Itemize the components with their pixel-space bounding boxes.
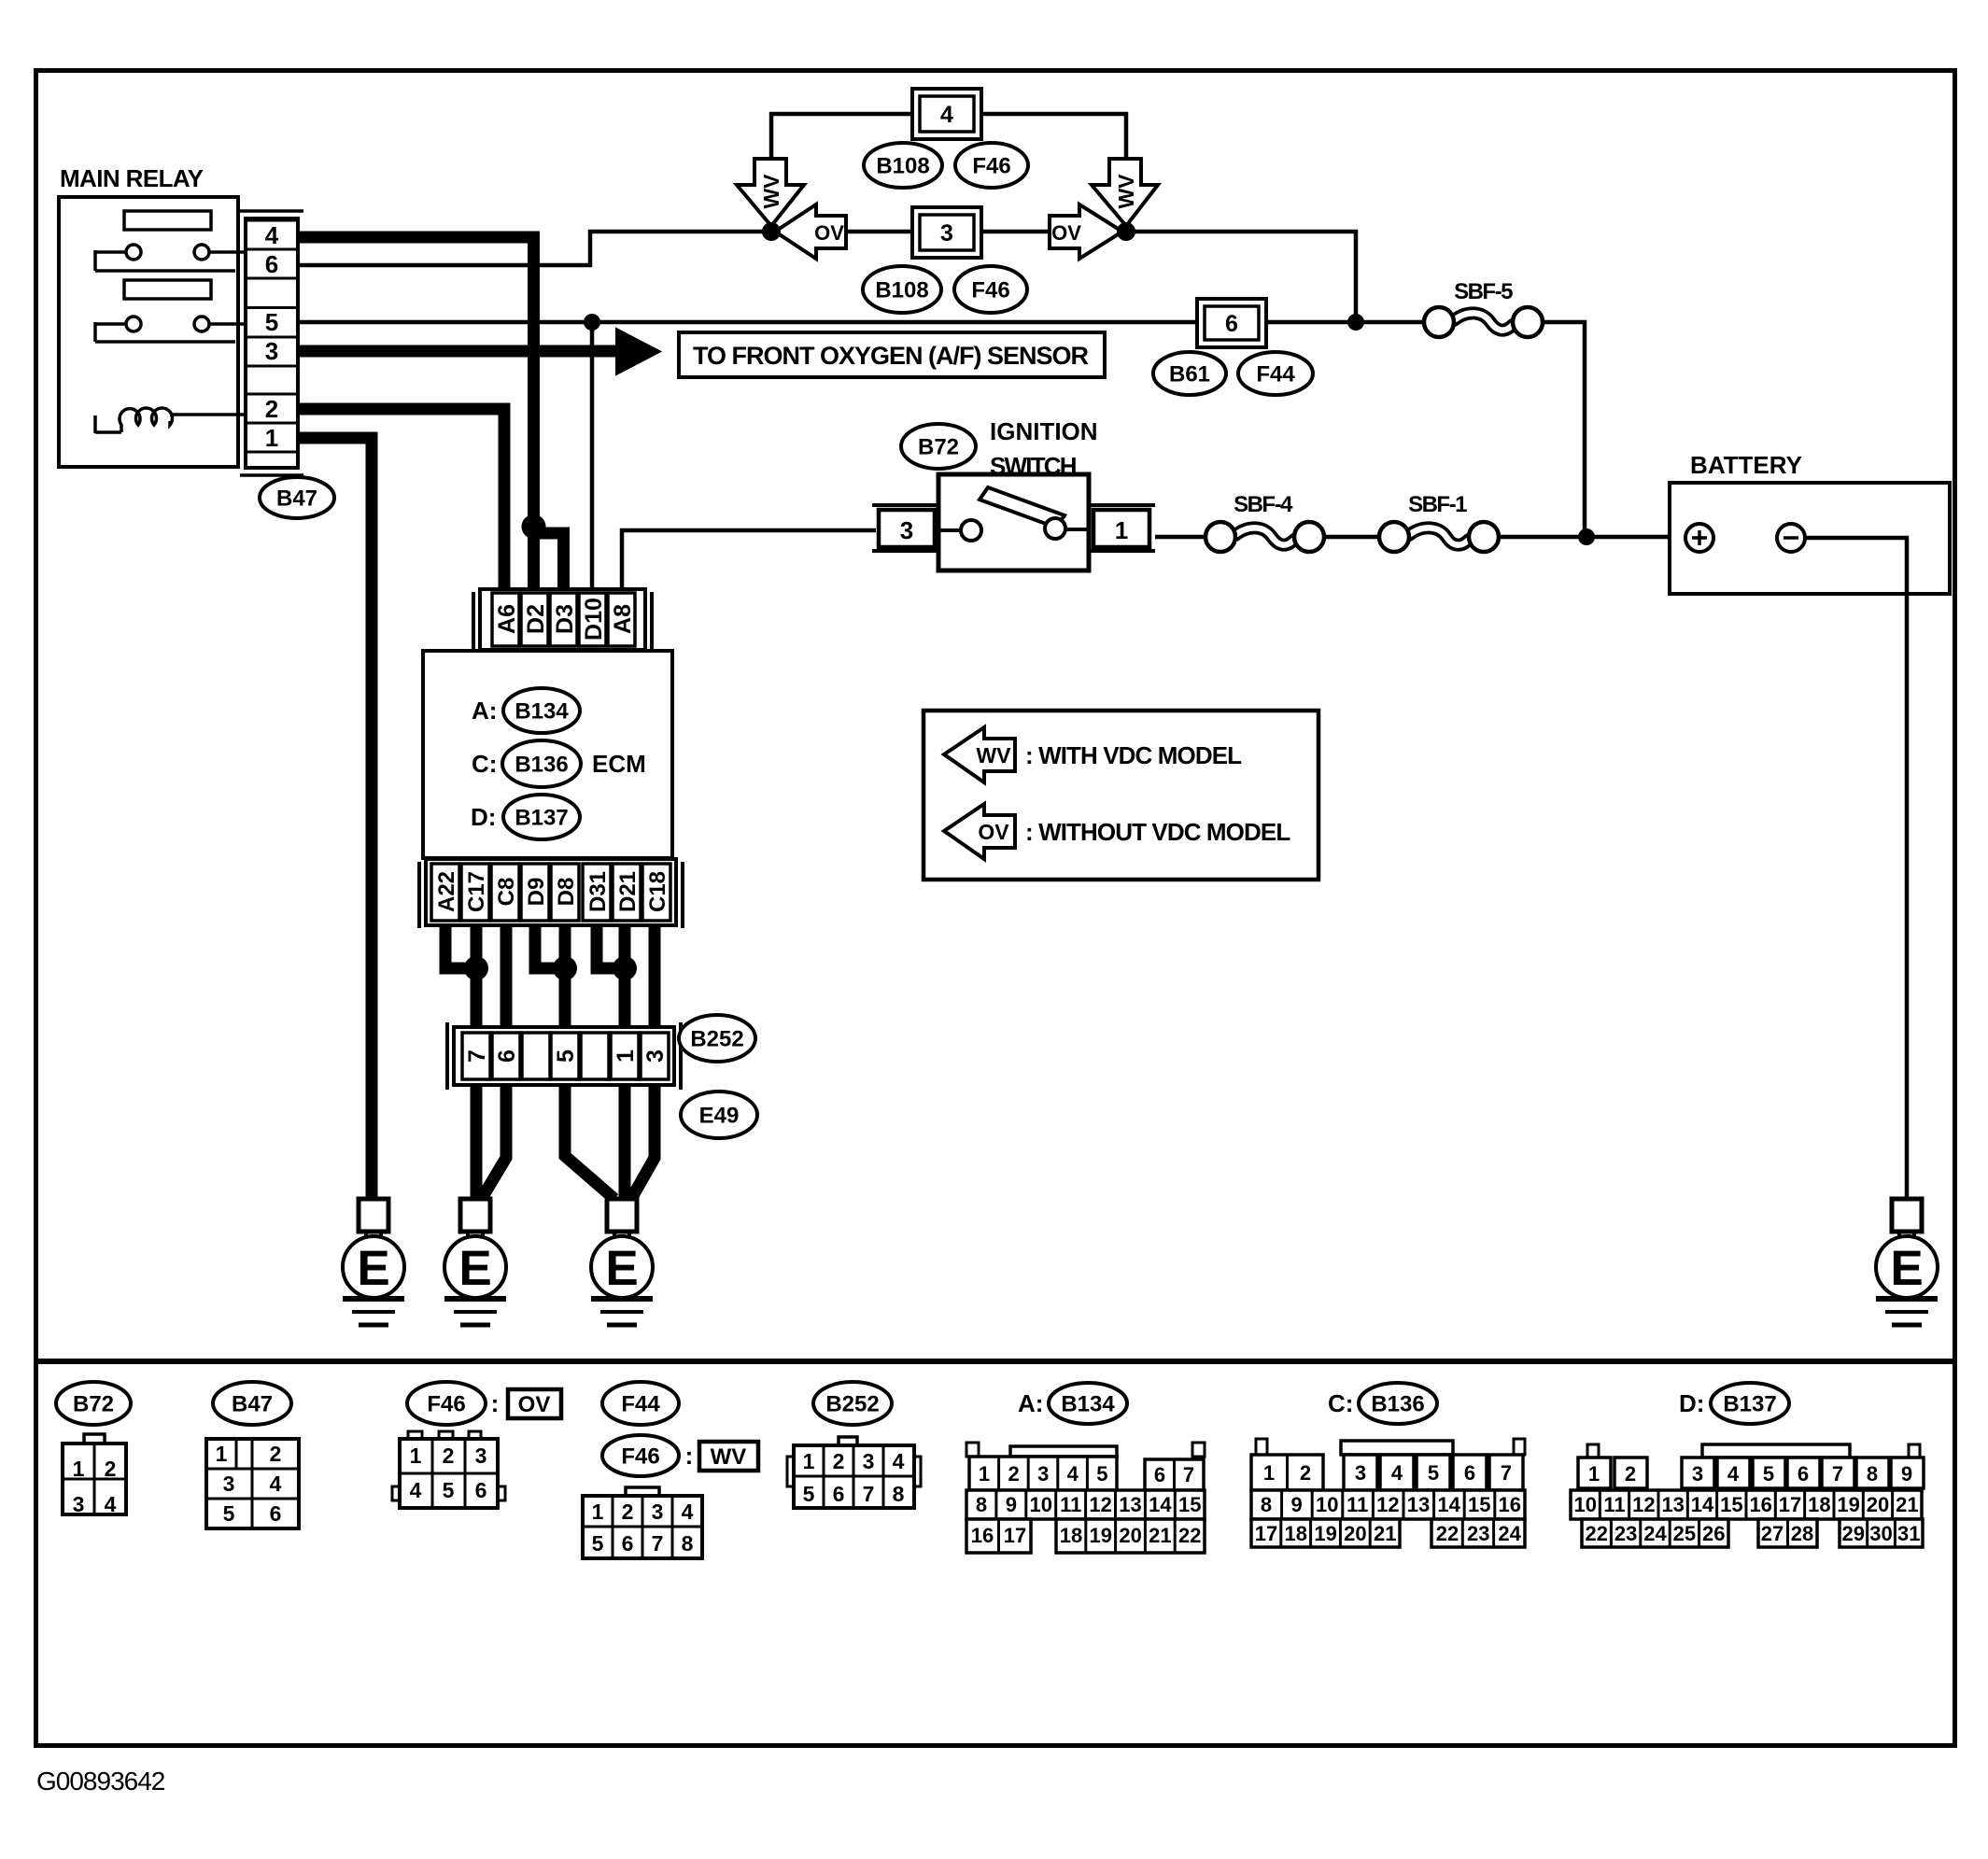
wire SBF-4 to SBF-1 [1324,535,1379,540]
svg-text:25: 25 [1673,1522,1696,1545]
svg-text:OV: OV [978,820,1009,844]
svg-text:E: E [458,1241,491,1296]
svg-text:1: 1 [592,1500,604,1524]
ground E3 circle E [591,1236,653,1298]
wire D9 down (thick) [535,925,560,968]
main relay contact 2 wires [95,322,126,326]
svg-text:7: 7 [464,1049,490,1063]
svg-text:1: 1 [265,424,278,452]
svg-text:WV: WV [1114,174,1138,209]
svg-text:: WITHOUT VDC MODEL: : WITHOUT VDC MODEL [1025,818,1290,846]
wire fuse3 to OV-right [981,230,1050,234]
wire A8 to ignition connector 3 [622,530,876,590]
junction dot right OV/WV [1117,222,1135,241]
ignition connector pin 3 box [879,510,935,547]
oval E49 [681,1091,757,1138]
svg-text:6: 6 [475,1478,487,1502]
svg-text:OV: OV [814,221,844,245]
svg-text:11: 11 [1060,1493,1081,1516]
svg-text:14: 14 [1437,1493,1460,1516]
svg-text:5: 5 [443,1478,455,1502]
svg-text:7: 7 [652,1531,664,1556]
arrow OV left (without VDC) [775,204,846,259]
svg-text:C8: C8 [494,878,519,907]
svg-text:24: 24 [1498,1522,1521,1545]
junction dot D31/D21 [613,956,637,980]
svg-text:12: 12 [1376,1493,1399,1516]
main relay contact 1 terminals [126,245,141,260]
svg-text:7: 7 [1183,1463,1194,1486]
svg-text:B47: B47 [232,1392,273,1417]
connector B137 pinout [1702,1444,1850,1458]
oval B108 upper [864,143,942,188]
svg-text:6: 6 [1225,311,1238,337]
svg-text:30: 30 [1869,1522,1892,1545]
svg-text:C:: C: [472,750,497,778]
svg-text:3: 3 [475,1444,487,1468]
main relay contact 1 bar [124,211,211,230]
oval F46 upper [955,143,1028,188]
svg-text:5: 5 [592,1531,604,1556]
ground E2 earth bars [444,1296,506,1302]
wire ignition to SBF-4 [1155,535,1205,540]
oval B47 [260,477,334,518]
WV model box [699,1442,758,1471]
svg-text:TO FRONT OXYGEN (A/F) SENSOR: TO FRONT OXYGEN (A/F) SENSOR [693,342,1089,370]
fusible link SBF-5 [1454,313,1513,330]
section divider line [36,1359,1955,1364]
oval B252 bottom [813,1382,892,1425]
oval F46 lower [954,266,1027,313]
wire pin5 horizontal to fuse 6 [298,320,1197,325]
OV model box [508,1389,561,1418]
wire fuse4 right lead [981,114,1126,172]
svg-text:18: 18 [1285,1522,1307,1545]
svg-text:C18: C18 [645,871,670,912]
svg-text:D:: D: [471,803,496,831]
ground E1 earth bars [343,1296,404,1302]
arrow WV right (with VDC) [1092,159,1158,226]
svg-text:16: 16 [1749,1493,1771,1516]
connector B47 pin cells [247,219,297,222]
svg-text:6: 6 [1464,1461,1475,1485]
wire OV-left to fuse3 [846,230,912,234]
svg-text:OV: OV [518,1392,551,1417]
svg-text:2: 2 [833,1449,845,1473]
fuse 3 box [912,207,981,258]
oval B108 lower [863,266,941,313]
svg-text:2: 2 [265,395,278,423]
svg-text:D:: D: [1679,1389,1704,1417]
svg-text:11: 11 [1346,1493,1368,1516]
svg-text:22: 22 [1585,1522,1607,1545]
svg-text:1: 1 [1263,1461,1275,1485]
svg-text:2: 2 [443,1444,455,1468]
wire pin2 to ECM A6 (thick) [298,409,504,590]
wire right junction to fuse6 line [1134,232,1356,322]
svg-text:6: 6 [1798,1462,1809,1486]
junction dot D2/D3 branch [522,514,546,539]
svg-text:7: 7 [1501,1461,1512,1485]
svg-text:5: 5 [553,1049,579,1063]
svg-text:8: 8 [976,1493,987,1516]
svg-text:13: 13 [1119,1493,1141,1516]
svg-text:13: 13 [1661,1493,1684,1516]
oval B47 bottom [213,1382,291,1425]
svg-text:21: 21 [1896,1493,1918,1516]
svg-text:22: 22 [1178,1524,1201,1547]
wire SBF-5 to battery junction [1543,322,1585,537]
svg-text:24: 24 [1643,1522,1667,1545]
svg-text:9: 9 [1290,1493,1302,1516]
svg-text:19: 19 [1090,1524,1112,1547]
svg-text:2: 2 [1625,1462,1636,1486]
wire pin1 to ground E1 (thick) [298,438,372,1201]
svg-text:14: 14 [1149,1493,1172,1516]
svg-text:5: 5 [1428,1461,1439,1485]
svg-text:D2: D2 [523,604,549,634]
svg-text:4: 4 [682,1500,694,1524]
ground E1 circle E [343,1236,404,1298]
svg-text:5: 5 [265,308,278,336]
svg-text:23: 23 [1614,1522,1637,1545]
svg-text:8: 8 [1867,1462,1878,1486]
ground E4 collar stubs [1897,1232,1901,1241]
svg-text:3: 3 [652,1500,664,1524]
connector B136 pinout [1341,1441,1453,1455]
svg-text:1: 1 [979,1462,990,1486]
svg-text:1: 1 [73,1457,85,1481]
wire D8 to B252 pin5 (thick) [559,925,571,1033]
ECM box [423,651,672,858]
svg-text:MAIN RELAY: MAIN RELAY [60,164,204,192]
wire D31 down (thick) [597,925,620,968]
svg-text:E: E [605,1241,638,1296]
main relay contact 1 wires [95,250,126,254]
svg-text:F46: F46 [621,1444,659,1470]
svg-text:5: 5 [1096,1462,1107,1486]
svg-text:4: 4 [270,1472,282,1496]
ignition switch pole left [938,528,962,532]
ground E2 connector block [460,1199,490,1232]
legend arrow WV [944,727,1015,782]
svg-text:F46: F46 [427,1392,465,1417]
svg-text:1: 1 [803,1449,815,1473]
arrowhead to oxygen sensor [616,329,660,374]
connector F46 OV pinout [408,1431,422,1439]
ground E4 earth bars [1876,1296,1938,1302]
svg-text:18: 18 [1808,1493,1830,1516]
svg-text:12: 12 [1632,1493,1655,1516]
svg-text:4: 4 [940,102,953,128]
svg-text:20: 20 [1867,1493,1889,1516]
svg-text:B72: B72 [918,435,959,460]
svg-text:12: 12 [1089,1493,1111,1516]
legend arrow OV [944,804,1015,859]
svg-text:F44: F44 [1256,362,1295,387]
main relay contact 2 terminals [126,317,141,331]
junction dot D9/D8 [553,956,577,980]
svg-text:3: 3 [223,1472,235,1496]
ECM bottom connector shell [417,862,421,928]
svg-text:17: 17 [1004,1524,1026,1547]
svg-text:10: 10 [1573,1493,1596,1516]
svg-text:B137: B137 [515,806,568,831]
wire fuse6 to SBF-5 [1266,320,1424,325]
svg-text:3: 3 [265,337,278,365]
svg-text:15: 15 [1720,1493,1742,1516]
svg-text:5: 5 [1763,1462,1774,1486]
oval F46 WV bottom [602,1435,679,1476]
svg-text:SBF-4: SBF-4 [1234,492,1293,517]
svg-text:1: 1 [613,1049,639,1063]
ground E1 collar stubs [364,1232,368,1241]
wire C8 to B252 pin6 (thick) [501,925,513,1033]
svg-text:3: 3 [1037,1462,1049,1486]
svg-text:6: 6 [622,1531,634,1556]
ground E3 collar stubs [613,1232,616,1241]
wire SBF-1 to battery [1499,535,1685,540]
svg-text:6: 6 [270,1501,282,1526]
fusible link SBF-4 [1235,528,1294,544]
ECM top connector pin cells [492,593,519,646]
oval F46 OV bottom [407,1382,486,1425]
svg-text:WV: WV [759,174,783,209]
oval B72 bottom [56,1382,131,1425]
svg-text:SBF-5: SBF-5 [1454,279,1513,304]
arrow WV left (with VDC) [737,159,804,226]
svg-text:28: 28 [1791,1522,1813,1545]
svg-text:F44: F44 [621,1392,660,1417]
svg-text:19: 19 [1314,1522,1336,1545]
oval B61 [1153,352,1226,395]
ground E2 collar stubs [466,1232,470,1241]
battery negative terminal [1777,524,1805,552]
fusible link SBF-1 [1409,528,1469,544]
svg-text:21: 21 [1374,1522,1396,1545]
connector B72 pinout [84,1434,105,1444]
connector B252/E49 pin cells [462,1033,490,1079]
svg-text:18: 18 [1060,1524,1082,1547]
wire B252 pin5 to ground E3 (thick) [565,1085,614,1199]
svg-text:D8: D8 [554,878,579,907]
svg-text:3: 3 [900,516,913,544]
svg-text:8: 8 [1261,1493,1272,1516]
wire C18 to B252 pin3 (thick) [649,925,661,1033]
svg-text:B61: B61 [1169,362,1210,387]
svg-text:4: 4 [1067,1462,1079,1486]
ground E1 connector block [359,1199,388,1232]
svg-text:B137: B137 [1723,1392,1776,1417]
wire C17 to B252 pin7 (thick) [471,925,483,1033]
svg-text:3: 3 [940,220,953,246]
svg-text:B252: B252 [825,1392,879,1417]
battery positive terminal [1685,524,1713,552]
ignition switch box [938,474,1089,570]
svg-text:C17: C17 [464,871,489,912]
junction dot pin5/D10 [584,314,600,331]
svg-text:19: 19 [1837,1493,1859,1516]
svg-text:17: 17 [1779,1493,1801,1516]
svg-text:6: 6 [494,1049,520,1063]
svg-text:B134: B134 [515,699,569,725]
svg-text:B136: B136 [1371,1392,1424,1417]
svg-text:1: 1 [1588,1462,1600,1486]
svg-text:9: 9 [1006,1493,1017,1516]
svg-text:A:: A: [472,697,497,725]
ignition connector pin 1 box [1093,510,1149,547]
svg-text:B134: B134 [1061,1392,1115,1417]
svg-text:B108: B108 [875,278,928,303]
arrow OV right (without VDC) [1050,204,1122,259]
main relay contact 2 bar [124,280,211,299]
svg-text:B72: B72 [73,1392,114,1417]
wire fuse4 left lead [771,114,912,172]
svg-text:1: 1 [410,1444,422,1468]
wire B252 pin7 to ground E2 (thick) [471,1085,483,1201]
ground E3 earth bars [591,1296,653,1302]
svg-text:8: 8 [682,1531,694,1556]
ground E4 circle E [1876,1236,1938,1298]
fuse 4 box [912,89,981,139]
svg-text:3: 3 [73,1492,85,1516]
svg-text:A22: A22 [434,871,459,912]
svg-text:D31: D31 [585,871,611,912]
svg-text:7: 7 [863,1482,875,1506]
wire pin3 to oxygen sensor (thick) [298,345,618,358]
junction dot fuse6 line [1347,314,1364,331]
connector B252 pinout [839,1437,857,1445]
connector B134 pinout [1010,1446,1117,1457]
wire B252 pin6 to ground E2 (thick) [481,1085,506,1200]
svg-text:: WITH VDC MODEL: : WITH VDC MODEL [1025,741,1242,769]
svg-text:16: 16 [971,1524,994,1547]
svg-text:4: 4 [105,1492,117,1516]
svg-text:WV: WV [976,743,1011,768]
connector B47 pin column shell [240,209,303,213]
wire pin4 to ECM D2 (thick) [298,237,534,523]
wire D2 junction to pin (thick) [528,527,540,590]
ground E4 connector block [1892,1199,1922,1232]
fuse 6 box [1197,299,1266,347]
svg-text:4: 4 [1391,1461,1403,1485]
svg-text:OV: OV [1051,221,1081,245]
svg-text:2: 2 [1008,1462,1019,1486]
ECM top connector shell [472,592,475,651]
svg-text:4: 4 [893,1449,905,1473]
svg-text:3: 3 [1692,1462,1703,1486]
svg-text:SBF-1: SBF-1 [1408,492,1467,517]
svg-text:26: 26 [1702,1522,1725,1545]
svg-text:20: 20 [1344,1522,1366,1545]
svg-text:B108: B108 [876,154,929,179]
svg-text:C:: C: [1328,1389,1353,1417]
svg-text:2: 2 [105,1457,117,1481]
svg-text:5: 5 [803,1482,815,1506]
wire B252 pin3 to ground E3 (thick) [631,1085,655,1199]
svg-text:ECM: ECM [592,750,646,778]
svg-text:B252: B252 [690,1027,743,1052]
svg-text:4: 4 [265,221,279,249]
svg-text:E49: E49 [699,1104,740,1129]
svg-text:E: E [1890,1241,1923,1296]
svg-text:D9: D9 [524,878,549,907]
oval F44 [1238,352,1313,395]
wire branch to D3 (thick) [534,533,564,590]
svg-text:7: 7 [1832,1462,1843,1486]
svg-text:G00893642: G00893642 [36,1767,165,1796]
battery box [1670,483,1950,594]
wire pin6 to OV/WV junction [298,232,766,265]
ground E3 connector block [607,1199,637,1232]
main relay coil [93,415,97,433]
svg-text:23: 23 [1467,1522,1489,1545]
svg-text:15: 15 [1468,1493,1490,1516]
main relay box [59,197,238,467]
svg-text:A8: A8 [610,604,636,634]
wire battery negative to ground E4 [1805,538,1907,1201]
svg-text:A:: A: [1018,1389,1043,1417]
svg-text:13: 13 [1407,1493,1430,1516]
svg-text:D21: D21 [615,871,641,912]
svg-text:2: 2 [622,1500,634,1524]
svg-text:6: 6 [265,250,278,278]
svg-text:10: 10 [1030,1493,1052,1516]
connector B252/E49 shell [445,1022,449,1090]
ignition switch pole right [1045,518,1065,539]
ground E2 circle E [444,1236,506,1298]
oval B72 ignition [901,424,976,469]
svg-text::: : [491,1389,500,1417]
svg-text:F46: F46 [972,154,1010,179]
svg-text:WV: WV [711,1444,747,1470]
junction dot left OV/WV [762,222,781,241]
svg-text:27: 27 [1761,1522,1784,1545]
svg-text:3: 3 [863,1449,875,1473]
connector B47 pinout [206,1439,299,1528]
svg-text:21: 21 [1149,1524,1171,1547]
svg-text:B47: B47 [276,486,317,512]
ignition connector 1 shell [1088,503,1155,507]
svg-text:6: 6 [1154,1463,1165,1486]
svg-text:E: E [357,1241,389,1296]
ignition connector 3 shell [872,503,939,507]
wire A22 down (thick) [445,925,472,968]
wire D21 to B252 pin1 (thick) [619,925,631,1033]
svg-text:3: 3 [642,1049,669,1063]
junction dot battery feed [1578,528,1595,545]
ignition switch lever [980,487,1064,528]
svg-text:F46: F46 [971,278,1009,303]
svg-text:4: 4 [1727,1462,1740,1486]
svg-text:1: 1 [216,1442,228,1466]
svg-text:9: 9 [1901,1462,1912,1486]
svg-text:A6: A6 [494,604,520,634]
svg-text:B136: B136 [515,753,568,778]
svg-text:1: 1 [1115,516,1128,544]
svg-text:3: 3 [1355,1461,1366,1485]
svg-text:BATTERY: BATTERY [1690,451,1802,479]
svg-text:2: 2 [270,1442,282,1466]
to front oxygen sensor label box [679,332,1105,377]
svg-text:16: 16 [1499,1493,1521,1516]
oval F44 bottom [602,1382,679,1425]
oval B252 [679,1015,755,1062]
svg-text:4: 4 [410,1478,422,1502]
ECM bottom connector pin cells [431,864,459,921]
junction dot A22/C17 [464,956,488,980]
connector F44/F46WV pinout [626,1487,659,1496]
